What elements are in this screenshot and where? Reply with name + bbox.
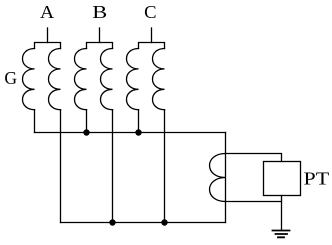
generator winding A1 — [23, 49, 35, 110]
svg-text:C: C — [144, 2, 156, 22]
junction dot B1-top bus — [83, 129, 89, 135]
svg-text:B: B — [92, 2, 107, 22]
wire top bus — [35, 132, 226, 134]
wire phase C top lead — [151, 28, 153, 43]
wire PT top to box — [226, 154, 282, 162]
svg-text:G: G — [4, 68, 17, 88]
PT box — [264, 162, 301, 196]
wire phase A top lead — [47, 28, 49, 43]
generator winding C1 — [127, 49, 139, 110]
junction dot C1-top bus — [135, 129, 141, 135]
wire PT bottom to ground lead — [226, 201, 282, 203]
wire phase C top bar — [139, 43, 165, 49]
wire phase A top bar — [35, 43, 61, 49]
wire right vertical — [225, 133, 227, 223]
wire phase B top lead — [99, 28, 101, 43]
svg-text:PT: PT — [304, 169, 330, 189]
generator winding C2 — [153, 49, 165, 110]
generator winding B2 — [101, 49, 113, 110]
wire winding C1 bottom lead — [138, 110, 140, 133]
junction dot B2-bottom bus — [109, 219, 115, 225]
wire phase B top bar — [87, 43, 113, 49]
wire winding C2 bottom lead — [164, 110, 166, 223]
svg-text:A: A — [40, 2, 54, 22]
wire PT box to ground — [281, 196, 283, 231]
ground — [273, 231, 290, 238]
generator winding A2 — [49, 49, 61, 110]
junction dot C2-bottom bus — [161, 219, 167, 225]
generator winding B1 — [75, 49, 87, 110]
wire winding B2 bottom lead — [112, 110, 114, 223]
wire winding B1 bottom lead — [86, 110, 88, 133]
PT primary winding — [210, 154, 226, 202]
wire bottom bus — [61, 222, 226, 224]
wire winding A1 bottom lead — [34, 110, 36, 133]
wire winding A2 bottom lead — [60, 110, 62, 223]
